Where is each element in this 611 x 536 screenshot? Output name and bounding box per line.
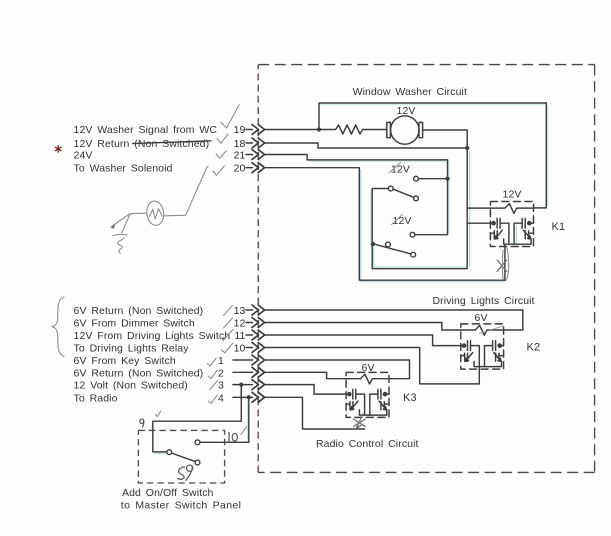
svg-text:13: 13: [234, 305, 246, 317]
svg-text:6V Return (Non Switched): 6V Return (Non Switched): [74, 367, 204, 379]
svg-text:6V: 6V: [362, 362, 375, 374]
svg-text:1: 1: [218, 355, 224, 367]
svg-text:18: 18: [234, 138, 246, 150]
svg-text:4: 4: [218, 392, 224, 404]
svg-text:6V Return (Non Switched): 6V Return (Non Switched): [74, 305, 204, 317]
svg-text:6V: 6V: [475, 312, 488, 324]
svg-text:Window Washer Circuit: Window Washer Circuit: [353, 86, 467, 98]
svg-text:21: 21: [234, 149, 246, 161]
svg-text:6V From Dimmer Switch: 6V From Dimmer Switch: [74, 318, 195, 330]
svg-text:12V: 12V: [397, 105, 416, 117]
svg-text:12V From Driving Lights Switch: 12V From Driving Lights Switch: [74, 330, 231, 342]
svg-text:12V: 12V: [391, 163, 410, 175]
svg-text:2: 2: [218, 367, 224, 379]
svg-text:Driving Lights Circuit: Driving Lights Circuit: [433, 295, 535, 307]
svg-text:12 Volt (Non Switched): 12 Volt (Non Switched): [74, 380, 188, 392]
svg-text:To Radio: To Radio: [74, 392, 118, 404]
svg-text:10: 10: [234, 343, 246, 355]
svg-text:To Washer Solenoid: To Washer Solenoid: [74, 163, 173, 175]
svg-text:20: 20: [234, 163, 246, 175]
svg-text:K2: K2: [527, 342, 541, 354]
svg-text:19: 19: [234, 124, 246, 136]
svg-text:To Driving Lights Relay: To Driving Lights Relay: [74, 343, 190, 355]
svg-text:3: 3: [218, 380, 224, 392]
svg-text:11: 11: [234, 330, 245, 342]
svg-text:24V: 24V: [74, 149, 93, 161]
svg-text:6V From Key Switch: 6V From Key Switch: [74, 355, 176, 367]
svg-text:12: 12: [234, 318, 246, 330]
svg-text:to Master Switch Panel: to Master Switch Panel: [121, 500, 241, 512]
svg-text:12V: 12V: [503, 189, 522, 201]
svg-text:12V Washer Signal from WC: 12V Washer Signal from WC: [74, 124, 218, 136]
svg-text:Radio Control Circuit: Radio Control Circuit: [316, 438, 419, 450]
svg-text:K3: K3: [403, 392, 417, 404]
svg-text:K1: K1: [552, 221, 566, 233]
svg-text:Add On/Off Switch: Add On/Off Switch: [122, 487, 214, 499]
